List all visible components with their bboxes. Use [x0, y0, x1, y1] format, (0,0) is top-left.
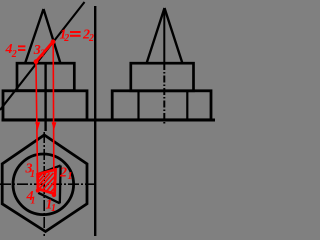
arrow right	[52, 122, 57, 130]
svg-text:2: 2	[59, 166, 67, 181]
equals sign	[18, 45, 25, 47]
svg-text:2: 2	[63, 33, 69, 44]
cylinder rectangle (side)	[131, 63, 194, 91]
svg-text:2: 2	[11, 49, 17, 60]
cut segment on trace	[36, 42, 53, 62]
section edge apex-1 (top, black)	[38, 166, 61, 175]
arrow left	[35, 122, 40, 130]
cylinder circle (top)	[13, 154, 74, 215]
hatch lines	[38, 173, 55, 192]
side axis line	[163, 9, 165, 63]
svg-text:1: 1	[68, 171, 73, 182]
svg-text:2: 2	[39, 49, 45, 60]
svg-text:1: 1	[30, 169, 35, 180]
hexagon prism outline (top)	[2, 135, 87, 232]
point 3-4 (front)	[34, 59, 39, 64]
prism rectangle (front)	[3, 91, 87, 120]
cone silhouette (side)	[147, 8, 183, 64]
fold line between front and side view	[94, 6, 96, 236]
point 1-2 (front)	[51, 39, 56, 44]
svg-text:2: 2	[88, 33, 94, 44]
section edge right (top, black)	[59, 166, 62, 204]
prism rectangle (side)	[112, 91, 211, 120]
ground line (axis X)	[2, 119, 216, 122]
cone silhouette (front)	[25, 9, 61, 64]
cylinder rectangle (front)	[17, 63, 74, 90]
horizontal centre line (top)	[0, 183, 97, 185]
cutting plane trace	[0, 2, 85, 110]
prism edge right (side)	[186, 91, 188, 120]
vertical centre line (top)	[43, 132, 45, 236]
point 4 blob (top)	[36, 189, 40, 193]
projection line left	[36, 64, 38, 174]
svg-text:1: 1	[51, 203, 56, 214]
section edge lower (top, black)	[38, 193, 60, 204]
front axis line	[44, 64, 46, 132]
svg-text:1: 1	[31, 196, 36, 207]
point 1 blob (top)	[52, 193, 56, 197]
prism edge left (side)	[137, 91, 139, 120]
projection line right	[52, 44, 55, 170]
equals sign	[70, 31, 81, 33]
section figure (top, red hatched)	[38, 170, 56, 194]
